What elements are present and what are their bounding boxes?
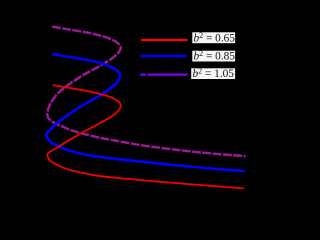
curve b2=0.65 (red): [47, 85, 244, 188]
legend label box 3: [191, 68, 235, 79]
legend label box 2: [192, 51, 235, 62]
curve b2=1.05 (purple dashed): [47, 27, 245, 157]
legend line purple solid: [147, 73, 187, 75]
legend line purple dash: [140, 73, 145, 75]
legend line red: [141, 39, 188, 41]
legend label box 1: [192, 32, 235, 43]
curve b2=0.85 (blue): [46, 54, 245, 171]
legend line blue: [141, 55, 187, 58]
